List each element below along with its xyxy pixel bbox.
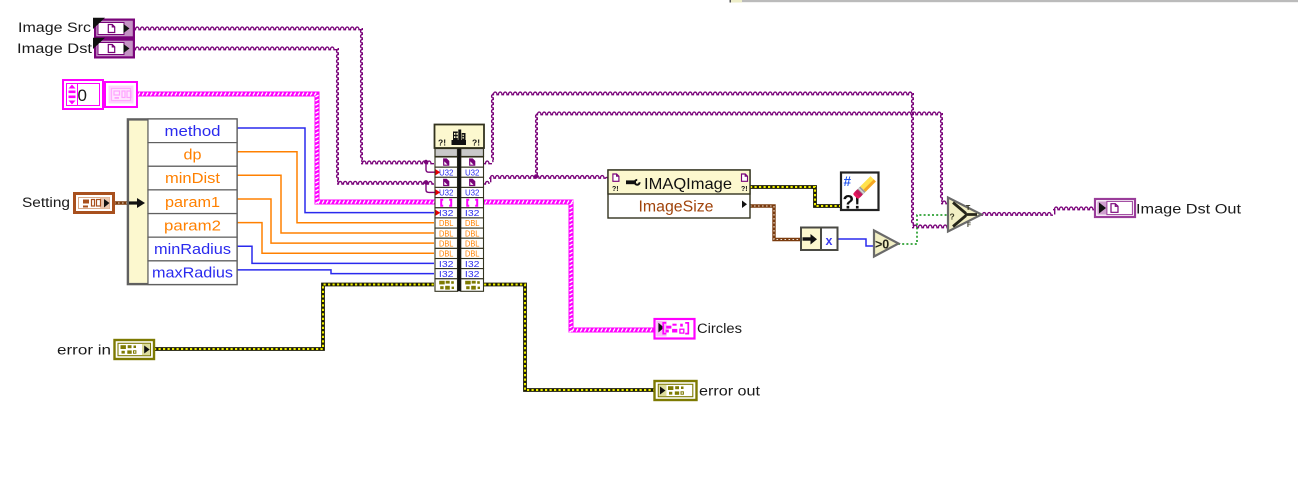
- unbundle-by-name node: [128, 119, 238, 285]
- wire dp (DBL): [237, 152, 434, 223]
- wire param1 (DBL): [237, 199, 434, 243]
- wire Setting control to unbundle-by-name: [114, 201, 131, 204]
- svg-text:dp: dp: [184, 147, 202, 163]
- svg-text:DBL: DBL: [465, 239, 480, 248]
- property node IMAQImage: [608, 170, 750, 218]
- svg-text:method: method: [165, 124, 221, 140]
- constant ring element of cluster: [105, 82, 137, 107]
- call library function node body: [435, 149, 484, 292]
- control Setting (cluster): [75, 194, 114, 213]
- wire maxRadius (I32): [237, 270, 434, 274]
- svg-text:F: F: [967, 222, 971, 229]
- wire Select output to Image Dst Out: [981, 207, 1095, 215]
- wire Image Dst to CLN (IMAQ purple): [134, 47, 435, 192]
- svg-text:DBL: DBL: [439, 239, 454, 248]
- svg-text:DBL: DBL: [465, 219, 480, 228]
- svg-text:U32: U32: [465, 168, 480, 177]
- wire method (I32): [237, 128, 434, 213]
- wire param2 (DBL): [237, 223, 434, 254]
- wire minRadius (I32): [237, 246, 434, 263]
- svg-text:error out: error out: [699, 383, 760, 398]
- greater-than-0 node: [874, 231, 899, 257]
- svg-text:DBL: DBL: [439, 250, 454, 259]
- svg-text:x: x: [826, 234, 833, 248]
- svg-text:>0: >0: [875, 237, 889, 251]
- wire CLN image dst dup out to property node and Select true input: [484, 112, 948, 204]
- svg-text:DBL: DBL: [465, 250, 480, 259]
- svg-text:I32: I32: [439, 209, 454, 218]
- black arrow into unbundle: [129, 198, 145, 208]
- wire CLN circles out to Circles indicator (pink hatched): [482, 200, 659, 333]
- svg-text:Image Src: Image Src: [18, 20, 91, 35]
- clipped label fragment top edge: [730, 0, 743, 3]
- svg-text:Setting: Setting: [22, 195, 70, 210]
- svg-text:Image Dst Out: Image Dst Out: [1136, 201, 1241, 216]
- select node: [948, 198, 982, 232]
- wire boolean greater-than-0 to Select (green dotted): [898, 215, 948, 244]
- svg-text:?!: ?!: [472, 138, 480, 148]
- svg-text:DBL: DBL: [465, 229, 480, 238]
- wire ImageSize to unbundle x: [750, 206, 801, 240]
- svg-text:#: #: [844, 174, 852, 189]
- svg-text:0: 0: [78, 86, 87, 105]
- unbundle node x (from ImageSize cluster): [801, 228, 838, 251]
- wire CLN image src dup out to Select false input: [484, 92, 948, 228]
- wire CLN error out to error out indicator: [484, 285, 655, 391]
- svg-text:DBL: DBL: [439, 229, 454, 238]
- svg-text:minRadius: minRadius: [154, 242, 231, 258]
- wire cluster constant to CLN circles-spec input (pink hatched): [135, 92, 437, 205]
- coercion dots on CLN inputs: [436, 169, 441, 216]
- wire property node error out to Clear Errors: [750, 187, 841, 206]
- indicator error out: [655, 381, 697, 400]
- svg-text:I32: I32: [465, 270, 480, 279]
- svg-text:DBL: DBL: [439, 219, 454, 228]
- svg-text:U32: U32: [439, 189, 454, 198]
- svg-text:T: T: [966, 205, 971, 212]
- svg-text:Circles: Circles: [697, 321, 742, 336]
- wire Image Src to CLN (IMAQ purple): [134, 27, 435, 172]
- svg-text:IMAQImage: IMAQImage: [644, 176, 732, 193]
- wire error in to CLN: [154, 285, 434, 350]
- Clear Errors.vi node: [841, 173, 879, 214]
- svg-text:Image Dst: Image Dst: [17, 41, 92, 56]
- wire minDist (DBL): [237, 175, 434, 233]
- svg-text:param1: param1: [165, 195, 220, 211]
- control error in: [115, 340, 155, 359]
- svg-text:param2: param2: [164, 218, 221, 234]
- call library function node header: [435, 125, 485, 149]
- indicator Image Dst Out: [1095, 199, 1135, 217]
- constant numeric 0 in cluster: [63, 80, 103, 109]
- svg-text:maxRadius: maxRadius: [152, 266, 233, 282]
- svg-text:U32: U32: [439, 168, 454, 177]
- control Image Src (IMAQ image): [93, 18, 135, 39]
- svg-text:?!: ?!: [612, 186, 619, 193]
- wire x to greater-than-0 (I32): [838, 239, 875, 246]
- indicator Circles (array of clusters): [655, 319, 695, 339]
- svg-text:I32: I32: [465, 209, 480, 218]
- svg-text:?: ?: [950, 212, 955, 222]
- window edge line top right: [742, 0, 1298, 2]
- svg-text:U32: U32: [465, 189, 480, 198]
- svg-text:?!: ?!: [438, 138, 446, 148]
- svg-text:I32: I32: [439, 260, 454, 269]
- svg-text:error in: error in: [57, 342, 111, 357]
- svg-text:minDist: minDist: [165, 171, 220, 187]
- svg-text:ImageSize: ImageSize: [639, 198, 714, 215]
- svg-text:I32: I32: [465, 260, 480, 269]
- svg-text:I32: I32: [439, 270, 454, 279]
- svg-text:?!: ?!: [741, 186, 748, 193]
- control Image Dst (IMAQ image): [93, 38, 135, 59]
